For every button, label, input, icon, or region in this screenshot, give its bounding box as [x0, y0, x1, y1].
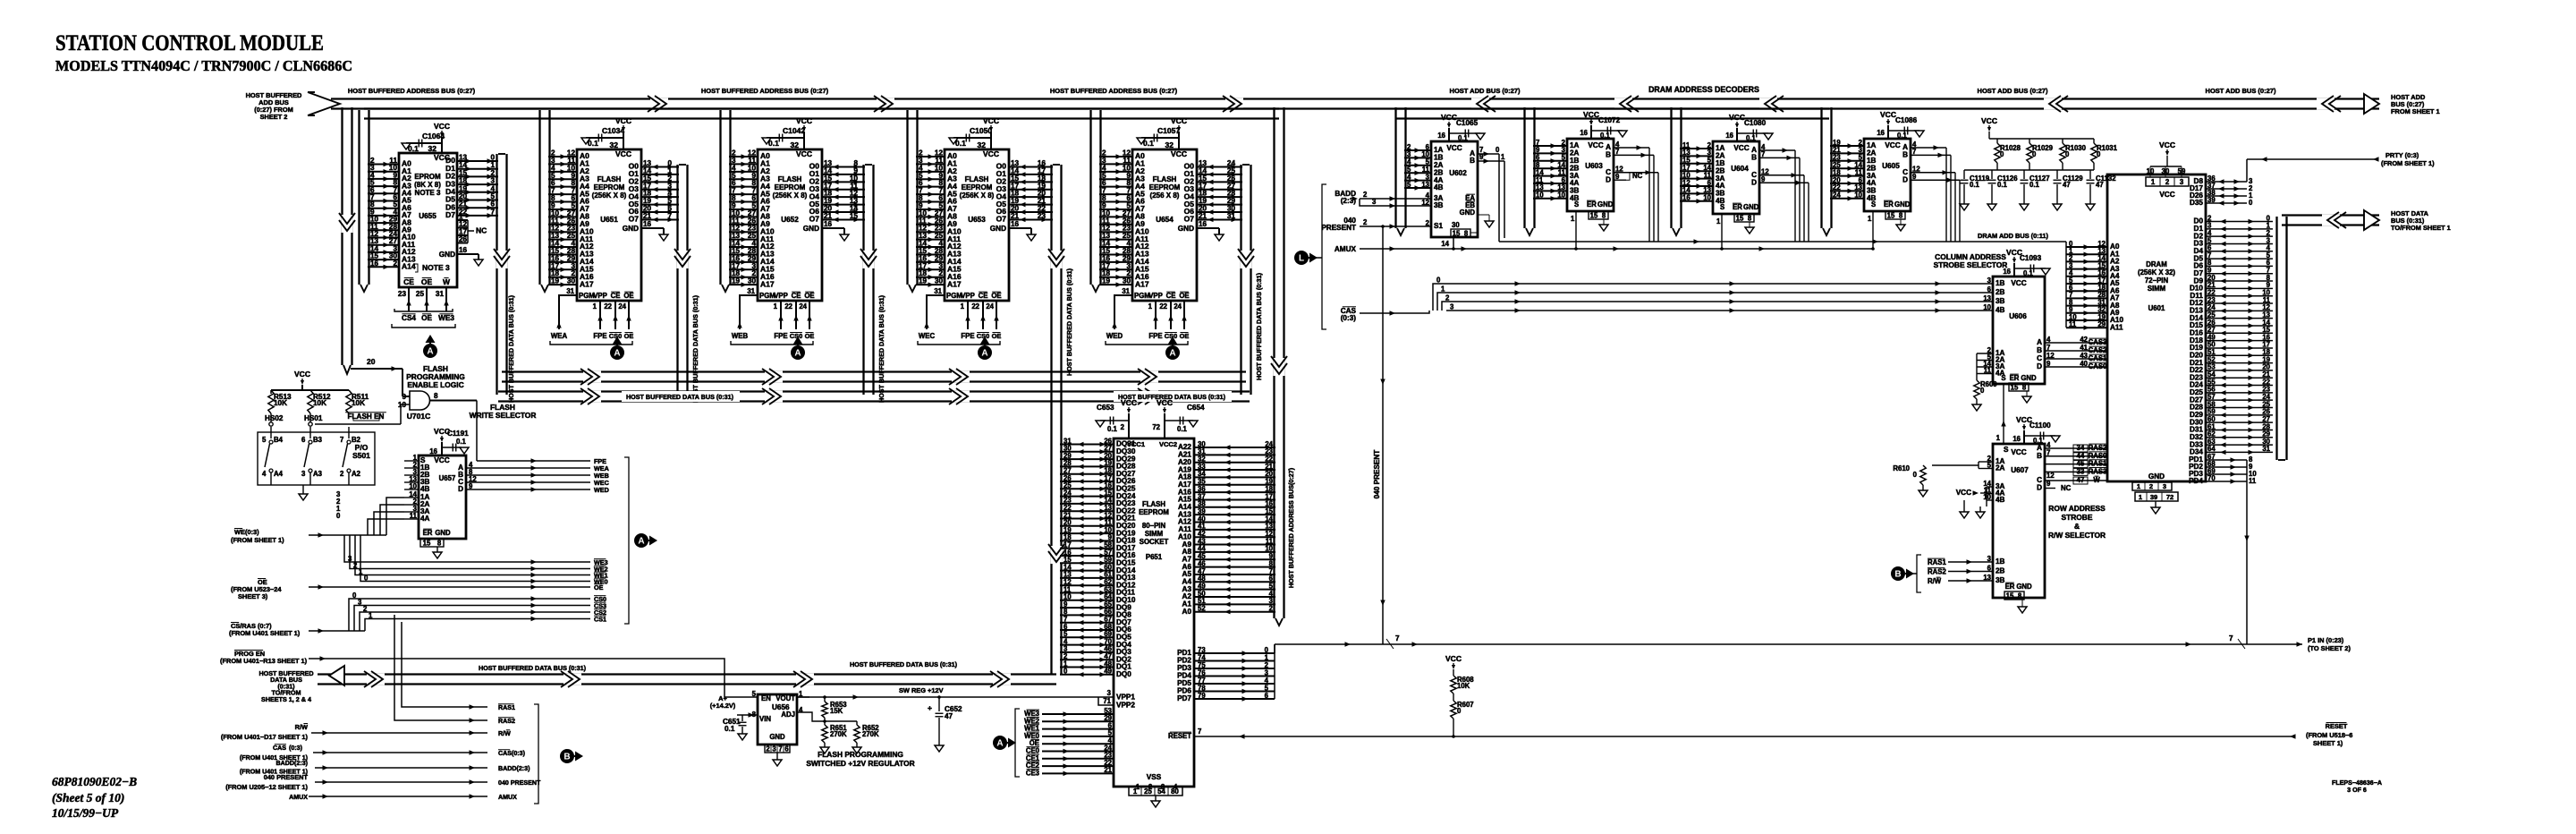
and-gate U701C [410, 391, 430, 410]
svg-text:2: 2 [2165, 178, 2170, 186]
nc pins U655 [457, 219, 468, 221]
svg-text:3: 3 [1987, 555, 1992, 563]
wire BADD row [315, 767, 487, 769]
vcc pin 16 U603 [1590, 125, 1592, 139]
svg-text:PRESENT: PRESENT [1321, 224, 1356, 232]
svg-text:VCC: VCC [2159, 191, 2174, 199]
svg-text:29: 29 [2097, 320, 2106, 328]
svg-text:B: B [1902, 151, 1908, 159]
svg-text:7: 7 [1395, 634, 1400, 643]
flag A under U651 [610, 345, 624, 360]
bus secondary address distribution bus right [1395, 107, 1829, 109]
svg-text:4: 4 [2046, 336, 2051, 344]
svg-text:OE: OE [991, 292, 1001, 300]
capacitor C1057 [1141, 137, 1179, 139]
svg-text:9: 9 [1761, 175, 1766, 183]
svg-text:15: 15 [459, 169, 468, 177]
bracket decoder inputs [1322, 184, 1326, 329]
svg-text:16: 16 [1437, 132, 1445, 140]
svg-text:U606: U606 [2009, 312, 2027, 320]
svg-text:(0:3): (0:3) [512, 750, 526, 757]
switch block P/O S501 [258, 432, 375, 485]
svg-text:6: 6 [784, 745, 789, 753]
svg-text:SHEET 1): SHEET 1) [2313, 739, 2343, 747]
svg-text:CE: CE [792, 292, 801, 300]
wire PD collector to P1 line right [2246, 460, 2248, 644]
svg-text:C1093: C1093 [2020, 254, 2042, 262]
svg-text:VPP: VPP [593, 292, 607, 300]
svg-text:D: D [1751, 178, 1757, 186]
wires DRAM address A0-A11 [2066, 246, 2107, 248]
svg-text:VCC: VCC [1157, 398, 1173, 407]
svg-text:4: 4 [262, 470, 267, 478]
U607 pins 1A 2A with R610 [1979, 461, 1993, 463]
wires WE(0:3) to U657 inputs [386, 498, 404, 535]
svg-text:(+14.2V): (+14.2V) [710, 702, 736, 710]
svg-text:6: 6 [1987, 564, 1992, 572]
svg-text:7: 7 [778, 745, 782, 753]
wire VPP1 from regulator [797, 696, 1114, 698]
vcc pins 10 30 59 U601 [2146, 177, 2189, 186]
svg-text:16: 16 [2003, 268, 2011, 276]
svg-text:(FROM SHEET 1): (FROM SHEET 1) [231, 536, 284, 544]
capacitor C654 [1165, 420, 1193, 421]
wires WE3-WE0 rows [344, 535, 590, 562]
svg-text:1: 1 [1716, 217, 1721, 226]
switch contact B4/A4 [270, 427, 272, 438]
svg-text:A: A [614, 349, 620, 359]
svg-text:FPE: FPE [1148, 332, 1162, 340]
wire DRAM ADD BUS (0:11) [1499, 241, 2066, 243]
svg-text:0.1: 0.1 [1997, 181, 2008, 189]
svg-text:C654: C654 [1187, 404, 1205, 412]
svg-text:72: 72 [2166, 493, 2173, 501]
svg-text:U604: U604 [1731, 165, 1749, 173]
svg-text:4A: 4A [420, 515, 430, 523]
svg-text:(0:3): (0:3) [289, 745, 303, 752]
svg-text:AMUX: AMUX [1335, 245, 1357, 253]
label host buffered data bus (0:31) mid x2 [622, 391, 740, 402]
svg-text:D: D [2037, 484, 2042, 492]
resistor R511 10K [346, 390, 352, 413]
wire S pin of U605 to AMUX [1872, 211, 1874, 249]
svg-text:0.1: 0.1 [1458, 134, 1469, 142]
wire 040 PRESENT row [315, 781, 487, 783]
svg-text:1B: 1B [1996, 279, 2005, 287]
svg-text:10: 10 [1557, 191, 1565, 200]
wire R/W row [311, 732, 487, 734]
wires A0-A17 into U653 [916, 156, 945, 157]
wires PD1-PD4 of U601 [2206, 459, 2247, 461]
wire A+ to VIN [737, 714, 758, 716]
wire 040 PRESENT vertical to P1 [1382, 226, 1384, 644]
wires address bits into U605 [1830, 145, 1864, 147]
capacitor C1080 [1737, 132, 1768, 134]
svg-text:21: 21 [1011, 212, 1020, 220]
svg-text:NOTE 3: NOTE 3 [415, 189, 441, 197]
svg-text:7: 7 [1615, 148, 1619, 156]
svg-text:VCC: VCC [983, 149, 999, 158]
svg-text:C653: C653 [1097, 404, 1114, 412]
svg-text:1B: 1B [1996, 557, 2005, 566]
svg-text:A14: A14 [402, 262, 416, 271]
svg-text:8: 8 [1748, 215, 1752, 223]
wires D0-D7 out of U655 [457, 160, 498, 162]
svg-text:B4: B4 [274, 436, 284, 444]
bus HOST BUFFERED ADDRESS BUS (0:27) top horizontal [331, 98, 2379, 99]
flag A mid selector outputs [634, 533, 648, 548]
vcc pin 32 U655 [441, 137, 443, 153]
svg-text:0: 0 [490, 154, 495, 162]
parity wires D8 D17 D26 D35 [2206, 181, 2247, 183]
svg-text:9: 9 [402, 393, 406, 401]
wires O0-O7 out of U654 [1197, 166, 1242, 168]
selector U606 [1993, 277, 2045, 384]
svg-text:1: 1 [961, 302, 965, 311]
svg-text:30: 30 [1452, 221, 1460, 229]
svg-text:SIMM: SIMM [2148, 285, 2165, 293]
capacitor C1129 47 [2056, 170, 2058, 179]
svg-text:0.1: 0.1 [456, 438, 467, 446]
svg-text:3: 3 [1450, 303, 1454, 311]
svg-text:EEPROM: EEPROM [962, 183, 993, 191]
svg-text:72−PIN: 72−PIN [2145, 277, 2169, 285]
vcc pin 16 U607 [2023, 430, 2025, 444]
svg-text:VCC: VCC [2159, 140, 2175, 149]
svg-text:(256K X 32): (256K X 32) [2138, 268, 2175, 277]
svg-text:70: 70 [2207, 474, 2216, 482]
svg-text:U651: U651 [600, 216, 618, 224]
svg-text:0.1: 0.1 [724, 725, 735, 733]
svg-text:ER: ER [2005, 583, 2015, 591]
svg-text:2B: 2B [1996, 567, 2005, 575]
svg-text:10/15/99−UP: 10/15/99−UP [52, 806, 119, 820]
svg-text:HOST ADD BUS (0:27): HOST ADD BUS (0:27) [2206, 87, 2276, 95]
svg-text:1: 1 [1441, 285, 1445, 294]
wires O0-O7 out of U653 [1009, 166, 1053, 168]
svg-text:15K: 15K [830, 707, 843, 715]
svg-text:HOST BUFFERED ADDRESS BUS (0:2: HOST BUFFERED ADDRESS BUS (0:27) [348, 87, 476, 95]
svg-text:VCC: VCC [1121, 398, 1137, 407]
svg-text:SOCKET: SOCKET [1140, 538, 1169, 546]
svg-text:1: 1 [490, 161, 495, 169]
svg-text:19: 19 [919, 277, 928, 285]
svg-text:VSS: VSS [1147, 773, 1162, 781]
svg-text:2: 2 [2149, 482, 2153, 490]
svg-text:CS0: CS0 [977, 332, 989, 340]
svg-text:2A: 2A [1996, 464, 2005, 472]
svg-text:10: 10 [398, 401, 407, 409]
svg-text:VOUT: VOUT [775, 694, 795, 702]
dram U601 [2107, 174, 2206, 481]
gnd pin 16 U652 [822, 227, 844, 229]
svg-text:GND: GND [990, 225, 1006, 233]
capacitor C1072 [1591, 130, 1623, 132]
svg-text:R/W SELECTOR: R/W SELECTOR [2048, 531, 2106, 540]
svg-text:OE: OE [421, 314, 432, 322]
svg-text:VCC: VCC [1880, 110, 1896, 119]
decoder U604 [1713, 141, 1759, 214]
svg-text:OE: OE [624, 332, 634, 340]
svg-text:VCC: VCC [1588, 141, 1603, 149]
svg-text:14: 14 [459, 161, 468, 169]
wires CS0 CS3 CS2 CS1 rows [349, 599, 590, 631]
svg-text:TO/FROM SHEET 1: TO/FROM SHEET 1 [2391, 224, 2451, 232]
svg-text:OE: OE [1179, 292, 1189, 300]
svg-text:HOST BUFFERED DATA BUS (0:31): HOST BUFFERED DATA BUS (0:31) [626, 393, 734, 401]
svg-text:B: B [1894, 570, 1901, 580]
svg-text:2: 2 [1363, 191, 1368, 199]
svg-text:8: 8 [1464, 230, 1469, 238]
flag A under U654 [1165, 345, 1180, 360]
bus vertical host buffered address spur far left [341, 107, 343, 365]
svg-text:10: 10 [1536, 191, 1544, 200]
svg-text:WRITE SELECTOR: WRITE SELECTOR [470, 411, 537, 420]
flash simm socket P651 [1114, 438, 1194, 787]
svg-text:24: 24 [618, 302, 626, 311]
svg-text:U602: U602 [1449, 169, 1467, 177]
svg-text:HOST BUFFERED DATA BUS (0:31): HOST BUFFERED DATA BUS (0:31) [850, 660, 958, 668]
capacitor C1086 [1888, 130, 1919, 132]
svg-text:U605: U605 [1882, 162, 1900, 170]
svg-text:(FROM U205−12 SHEET 1): (FROM U205−12 SHEET 1) [225, 783, 308, 791]
wire ADJ to divider [797, 712, 857, 721]
vcc pullup R608 R607 on reset [1452, 665, 1455, 669]
svg-text:VPP: VPP [1148, 292, 1163, 300]
vcc pin 32 U651 [623, 132, 624, 149]
svg-text:0.1: 0.1 [2029, 181, 2040, 189]
vcc for pullups [301, 380, 304, 385]
svg-text:3: 3 [772, 745, 776, 753]
bus vertical host buffered data bus segment right of U651 [676, 165, 678, 395]
svg-text:RESET: RESET [2326, 722, 2348, 730]
svg-text:GND: GND [1178, 225, 1194, 233]
svg-text:VCC: VCC [1729, 113, 1745, 122]
svg-text:S: S [1574, 200, 1579, 208]
svg-text:WEC: WEC [919, 332, 936, 340]
svg-text:DRAM: DRAM [2146, 260, 2166, 268]
svg-text:10: 10 [1854, 191, 1862, 200]
svg-text:0: 0 [1980, 387, 1985, 395]
svg-text:A: A [996, 739, 1003, 749]
svg-text:31: 31 [2262, 445, 2270, 453]
wire VPP2 [1098, 697, 1114, 705]
svg-text:11: 11 [1984, 366, 1992, 374]
svg-text:1: 1 [2137, 482, 2140, 490]
svg-text:41: 41 [2080, 344, 2088, 352]
svg-text:R/W: R/W [1928, 577, 1942, 585]
flag L into decoder section [1294, 251, 1309, 265]
svg-text:A17: A17 [947, 279, 962, 288]
svg-text:71: 71 [1103, 697, 1111, 705]
svg-text:10: 10 [1983, 493, 1991, 501]
flag B into U607 [1891, 566, 1905, 581]
gnd pin 16 U655 [457, 253, 479, 255]
svg-text:U652: U652 [781, 216, 799, 224]
svg-text:S: S [2001, 374, 2005, 382]
svg-text:0.1: 0.1 [2023, 269, 2034, 277]
svg-text:A17: A17 [760, 279, 775, 288]
svg-text:U607: U607 [2011, 466, 2029, 474]
svg-text:O7: O7 [629, 215, 640, 224]
svg-text:S: S [2004, 446, 2009, 454]
svg-text:31: 31 [1122, 287, 1130, 295]
svg-text:S501: S501 [352, 451, 370, 460]
flag A under U652 [791, 345, 805, 360]
wire PROG EN to regulator enable [309, 659, 758, 697]
svg-text:HOST BUFFERED ADDRESS BUS(0:27: HOST BUFFERED ADDRESS BUS(0:27) [1287, 467, 1295, 588]
svg-text:A: A [427, 347, 433, 357]
svg-text:C: C [2037, 354, 2042, 362]
wire PRTY (0:3) [2247, 158, 2375, 160]
svg-text:U603: U603 [1585, 162, 1603, 170]
svg-text:3: 3 [1107, 689, 1112, 697]
svg-text:FPE: FPE [961, 332, 974, 340]
vcc for termination resistors [1987, 127, 1991, 132]
resistor R651 270K [822, 725, 827, 743]
svg-text:HS01: HS01 [304, 414, 323, 422]
svg-text:A4: A4 [274, 470, 284, 478]
svg-text:A: A [2037, 444, 2042, 452]
svg-text:40: 40 [2080, 360, 2088, 368]
svg-text:13: 13 [1983, 294, 1991, 302]
svg-text:B: B [1751, 154, 1757, 162]
svg-text:B2: B2 [352, 436, 361, 444]
capacitor C1050 [953, 137, 991, 139]
svg-text:0: 0 [1063, 668, 1068, 676]
svg-text:CE: CE [979, 292, 988, 300]
svg-text:OE: OE [805, 332, 815, 340]
svg-text:32: 32 [1165, 140, 1174, 149]
svg-text:1: 1 [2139, 493, 2142, 501]
svg-text:A3: A3 [313, 470, 323, 478]
wires write/chip enables into P651 [1042, 713, 1114, 715]
svg-text:(FROM U401−R13 SHEET 1): (FROM U401−R13 SHEET 1) [220, 657, 308, 665]
svg-text:RAS3: RAS3 [2089, 467, 2107, 475]
svg-text:2: 2 [1445, 294, 1450, 302]
decoder U605 [1864, 139, 1911, 211]
svg-text:D: D [1606, 175, 1611, 183]
svg-text:HOST BUFFERED DATA BUS (0:31): HOST BUFFERED DATA BUS (0:31) [1255, 272, 1263, 380]
svg-text:GND: GND [2016, 583, 2032, 591]
svg-text:(8K X 8): (8K X 8) [414, 181, 441, 189]
svg-text:CE: CE [611, 292, 621, 300]
bracket group B bottom left [534, 704, 538, 804]
svg-text:6: 6 [301, 436, 306, 444]
resistor R609 0 [1974, 380, 1979, 399]
svg-text:1: 1 [1996, 434, 2001, 442]
svg-text:CS0: CS0 [609, 332, 622, 340]
svg-text:CE: CE [1166, 292, 1176, 300]
svg-text:0: 0 [1496, 146, 1500, 154]
bus vertical address feed for U654 [1089, 110, 1091, 285]
svg-text:C1191: C1191 [447, 430, 469, 438]
svg-text:B: B [2037, 452, 2042, 460]
svg-text:3: 3 [1372, 198, 1377, 206]
svg-text:VCC: VCC [1441, 113, 1457, 122]
svg-text:10K: 10K [274, 399, 287, 407]
svg-text:R/W: R/W [295, 723, 308, 731]
svg-text:(256K X 8): (256K X 8) [960, 191, 995, 200]
svg-text:RAS2: RAS2 [1928, 568, 1946, 576]
svg-text:HOST BUFFERED DATA BUS (0:31): HOST BUFFERED DATA BUS (0:31) [877, 294, 885, 403]
svg-text:31: 31 [436, 290, 445, 298]
svg-text:15: 15 [850, 212, 859, 220]
svg-text:8: 8 [1602, 212, 1606, 220]
svg-text:3: 3 [2163, 482, 2166, 490]
svg-text:GND: GND [1460, 208, 1476, 217]
svg-text:5: 5 [1407, 181, 1411, 189]
svg-text:HOST ADD BUS (0:27): HOST ADD BUS (0:27) [1978, 87, 2048, 95]
svg-text:4B: 4B [1996, 496, 2005, 504]
svg-text:2: 2 [363, 605, 368, 613]
svg-text:22: 22 [604, 302, 612, 311]
svg-text:31: 31 [566, 287, 574, 295]
svg-text:FLASH: FLASH [1153, 175, 1177, 183]
wires address bits into U603 [1533, 145, 1567, 147]
vcc pin 16 U606 [2013, 263, 2015, 277]
wire RAS1 row [402, 622, 487, 707]
svg-text:HOST BUFFERED ADDRESS BUS (0:2: HOST BUFFERED ADDRESS BUS (0:27) [701, 87, 829, 95]
svg-text:P1 IN (0:23): P1 IN (0:23) [2308, 636, 2344, 644]
svg-text:10K: 10K [1457, 682, 1470, 690]
svg-text:4B: 4B [1434, 183, 1444, 191]
svg-text:SIMM: SIMM [1145, 530, 1163, 538]
wire 040 PRESENT to U602 S1 [1360, 226, 1428, 227]
svg-text:0: 0 [352, 591, 357, 600]
wire CAS row [313, 752, 487, 753]
svg-text:(FROM U401 SHEET 1): (FROM U401 SHEET 1) [229, 629, 301, 637]
flash eeprom U654 [1132, 149, 1197, 301]
selector U607 [1993, 444, 2045, 598]
capacitor C651 [741, 715, 743, 721]
svg-text:HOST ADD BUS (0:27): HOST ADD BUS (0:27) [1450, 87, 1521, 95]
svg-text:RAS1: RAS1 [1928, 558, 1946, 566]
resistor R513 10K [268, 390, 274, 413]
svg-text:8: 8 [434, 392, 438, 400]
svg-text:16: 16 [643, 220, 652, 228]
svg-text:20: 20 [367, 357, 376, 366]
svg-text:13: 13 [459, 154, 468, 162]
svg-text:25: 25 [1144, 787, 1152, 796]
svg-text:52: 52 [1198, 605, 1206, 613]
svg-text:(256K X 8): (256K X 8) [592, 191, 627, 200]
svg-text:(FROM SHEET 1): (FROM SHEET 1) [2381, 159, 2435, 167]
svg-text:VIN: VIN [759, 715, 771, 723]
svg-text:16: 16 [1682, 194, 1690, 202]
svg-text:U701C: U701C [407, 412, 430, 421]
decoder U602 [1431, 141, 1478, 237]
svg-text:15: 15 [1590, 212, 1598, 220]
svg-text:VCC: VCC [1956, 489, 1971, 497]
svg-text:21: 21 [459, 200, 468, 208]
svg-text:MODELS TTN4094C / TRN7900C / C: MODELS TTN4094C / TRN7900C / CLN6686C [55, 57, 352, 74]
vcc pin 16 U657 [441, 442, 443, 455]
svg-text:NC: NC [476, 226, 487, 235]
svg-text:L: L [1299, 254, 1304, 264]
svg-text:GND: GND [1894, 200, 1911, 208]
svg-text:W: W [2093, 476, 2100, 484]
svg-text:1: 1 [1868, 215, 1872, 223]
svg-text:4: 4 [490, 184, 495, 192]
svg-text:4B: 4B [1996, 306, 2005, 314]
svg-text:VCC: VCC [1445, 654, 1462, 663]
flash eeprom U652 [758, 149, 822, 301]
flag B bottom left [560, 749, 574, 763]
svg-text:0: 0 [1436, 277, 1441, 285]
svg-text:16: 16 [1011, 220, 1020, 228]
resistor R610 0 [1920, 465, 1926, 485]
